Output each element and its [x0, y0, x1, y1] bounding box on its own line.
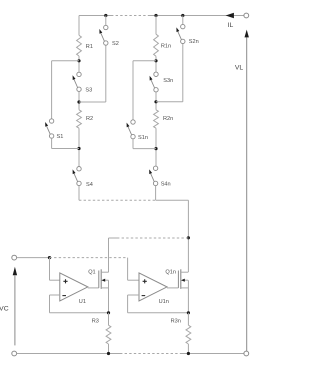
junction: top rail / S2n branch [181, 14, 184, 17]
wire: Q1 drain up [108, 238, 110, 272]
svg-text:Q1n: Q1n [165, 269, 176, 275]
junction: bottom rail / R3 [107, 352, 110, 355]
wire: drain column down to Q1n [187, 200, 189, 272]
resistor R1 [77, 35, 82, 56]
wire: tap to S1n (horizontal) [133, 60, 156, 62]
wire: U1 feedback (vertical) [49, 295, 51, 313]
switch S4 contacts [77, 167, 81, 171]
op-amp U1 body [60, 273, 88, 301]
terminal: bottom-right (load -) [244, 351, 249, 356]
wire: S4n bottom down [155, 186, 157, 201]
wire: tap to S1 (vertical) [51, 61, 53, 119]
transistor Q1 body stub [105, 279, 109, 281]
junction: Q1 source / R3 / feedback [107, 311, 110, 314]
op-amp U1n plus input marker [143, 279, 147, 283]
junction: S3n/R2n/S2n node [154, 100, 157, 103]
wire: S1n bottom to node [133, 148, 156, 150]
switch S1 lever [47, 126, 51, 134]
wire: rail down to R1 [78, 16, 80, 36]
wire: R1 to S3 [78, 56, 80, 72]
junction: Q1 drain link / Q1n drain [187, 236, 190, 239]
junction: R2n/S1n/S4n node [154, 147, 157, 150]
wire: S1 bottom down [51, 138, 53, 148]
wire: U1 + input feed (horizontal) [50, 279, 60, 281]
wire: rail to S2n top [182, 16, 184, 25]
wire: rail to S2 top [105, 16, 107, 26]
junction: R1n/S3n/S1n node [154, 59, 157, 62]
current IL arrowhead [226, 13, 234, 19]
wire: U1 feedback to R3 node [50, 312, 109, 314]
wire: U1n feedback to R3n node [128, 312, 189, 314]
switch S2 lever arrowhead [99, 29, 102, 34]
wire: node to R3n [187, 313, 189, 325]
bottom rail (right solid part) [181, 353, 244, 355]
transistor Q1 body arrow [101, 279, 105, 282]
wire: tap to S1n (vertical) [132, 61, 134, 120]
wire: R2n down to S4n [155, 128, 157, 166]
svg-text:R2n: R2n [163, 116, 173, 122]
op-amp U1n body [139, 273, 167, 301]
svg-text:U1n: U1n [159, 299, 169, 305]
wire: Q1n source down to R3n node [187, 280, 189, 313]
switch S4n lever [151, 174, 155, 182]
transistor Q1 drain stub [101, 271, 108, 273]
transistor Q1n gate bar [177, 271, 179, 288]
wire: R3n to bottom rail [187, 344, 189, 354]
switch S3n contacts [154, 72, 158, 76]
svg-text:S1n: S1n [138, 135, 148, 141]
svg-text:R1n: R1n [161, 44, 171, 50]
resistor R1n [154, 34, 159, 56]
svg-text:S3: S3 [85, 88, 92, 94]
junction: top rail / S2 branch [104, 14, 107, 17]
svg-text:S4n: S4n [161, 182, 171, 188]
resistor R3n [186, 325, 191, 344]
switch S2 lever [101, 33, 105, 41]
resistor R2n [154, 110, 159, 128]
svg-text:S4: S4 [86, 182, 93, 188]
switch S1 lever arrowhead [45, 122, 48, 127]
junction: VC line / U1 + input tap [48, 256, 51, 259]
wire: S3 to R2 [78, 92, 80, 110]
wire: U1 output to Q1 gate [88, 287, 99, 289]
wire: VC line dashed to U1n side [50, 257, 128, 259]
switch S3 lever arrowhead [73, 75, 76, 80]
transistor Q1 channel bar [100, 269, 102, 289]
wire: Q1 source down to R3 node [108, 280, 110, 313]
bottom rail (dashed middle) [120, 353, 181, 355]
terminal: VC input + [12, 255, 17, 260]
top supply rail (right solid part to IL terminal) [148, 15, 244, 17]
switch S4 lever arrowhead [73, 169, 76, 174]
transistor Q1 gate bar [98, 271, 100, 288]
transistor Q1n body stub [184, 279, 188, 281]
svg-text:S2: S2 [112, 41, 119, 47]
svg-text:R1: R1 [86, 44, 93, 50]
switch S1n lever [128, 127, 132, 135]
switch S1n lever arrowhead [127, 123, 130, 128]
switch S1 contacts [49, 119, 53, 123]
terminal: bottom-left (VC -) [12, 351, 17, 356]
transistor Q1n drain stub [181, 271, 188, 273]
switch S4n contacts [153, 166, 157, 170]
wire: node to S2 branch (horizontal) [79, 101, 106, 103]
wire: U1 - input [50, 294, 60, 296]
transistor Q1 source stub [101, 287, 108, 289]
wire: rail down to R1n [155, 16, 157, 35]
switch S3n lever arrowhead [150, 76, 153, 81]
switch S3 contacts [77, 72, 81, 76]
switch S2n contacts [181, 24, 185, 28]
wire: U1n output to Q1n gate [167, 287, 178, 289]
junction: Q1n source / R3n / feedback [187, 311, 190, 314]
wire: S1n bottom down [132, 139, 134, 149]
op-amp U1n minus input marker [142, 295, 146, 297]
switch S2 contacts [104, 25, 108, 29]
svg-text:IL: IL [228, 22, 234, 29]
svg-text:VC: VC [0, 306, 9, 313]
top supply rail (dashed continuation) [111, 15, 148, 17]
voltage VC annotation arrow shaft [14, 275, 16, 345]
junction: R1/S3/S1 node [77, 59, 80, 62]
transistor Q1n source stub [181, 287, 188, 289]
voltage VL arrowhead [245, 30, 249, 38]
svg-text:VL: VL [235, 64, 244, 71]
switch S3 lever [74, 80, 78, 88]
wire: R1n to S3n [155, 56, 157, 72]
junction: top rail / R1n branch [154, 14, 157, 17]
wire: R3 to bottom rail [108, 344, 110, 354]
switch S4 lever [74, 174, 78, 182]
transistor Q1n channel bar [180, 269, 182, 289]
wire: Q1 drain link (solid stub) [109, 237, 118, 239]
resistor R3 [106, 325, 111, 344]
wire: S4 bottom down [78, 186, 80, 201]
bottom rail (left solid part) [17, 353, 120, 355]
wire: U1n + input feed (vertical) [127, 258, 129, 281]
voltage VL annotation arrow shaft [246, 37, 248, 351]
voltage VC annotation arrowhead [13, 267, 17, 276]
switch S2n lever arrowhead [176, 27, 179, 32]
terminal: top-right (load +) [244, 13, 249, 18]
wire: U1 + input feed (vertical) [49, 258, 51, 281]
wire: S2n branch (vertical) [182, 44, 184, 102]
wire: S2 branch (vertical) [105, 45, 107, 102]
junction: S3/R2/S2 node [77, 100, 80, 103]
wire: tap to S1 (horizontal) [52, 60, 79, 62]
wire: VC terminal to tap [17, 257, 50, 259]
junction: bottom rail / R3n [187, 352, 190, 355]
svg-text:R2: R2 [86, 116, 93, 122]
svg-text:R3: R3 [92, 318, 99, 324]
wire: R2 down to S4 [78, 128, 80, 166]
wire: S3n to R2n [155, 92, 157, 110]
wire: S4n bottom to drain column [156, 199, 189, 201]
wire: node to R3 [108, 313, 110, 325]
wire: S4 to S4n dashed link [79, 199, 156, 201]
wire: node to S2n branch (horizontal) [156, 101, 183, 103]
svg-text:U1: U1 [79, 299, 86, 305]
transistor Q1n body arrow [181, 279, 185, 282]
top supply rail (left solid part) [79, 15, 111, 17]
wire: U1n + input feed (horizontal) [128, 279, 139, 281]
svg-text:S2n: S2n [189, 39, 199, 45]
svg-text:S3n: S3n [163, 78, 173, 84]
svg-text:R3n: R3n [171, 318, 181, 324]
switch S3n lever [151, 80, 155, 88]
switch S4n lever arrowhead [149, 169, 152, 174]
wire: U1n - input [128, 294, 139, 296]
wire: Q1 drain link (dashed) [117, 237, 188, 239]
op-amp U1 plus input marker [63, 279, 67, 283]
svg-text:S1: S1 [57, 134, 64, 140]
op-amp U1 minus input marker [62, 295, 66, 297]
resistor R2 [77, 110, 82, 128]
wire: S1 bottom to node [52, 148, 79, 150]
switch S2n lever [178, 32, 182, 40]
svg-text:Q1: Q1 [88, 269, 95, 275]
wire: U1n feedback (vertical) [127, 295, 129, 313]
junction: R2/S1/S4 node [77, 147, 80, 150]
switch S1n contacts [131, 120, 135, 124]
